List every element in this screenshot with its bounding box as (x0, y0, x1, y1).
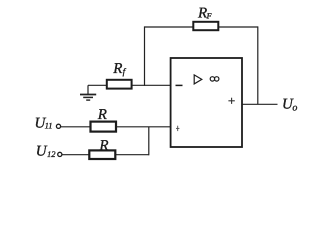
op-amp infinity symbol (210, 77, 219, 81)
svg-text:o: o (292, 102, 297, 113)
resistor RF (193, 22, 218, 30)
wire junction vertical joining row2 to row1 (148, 127, 150, 156)
op-amp triangle symbol (194, 75, 202, 84)
resistor R1 (row U11) (91, 122, 117, 132)
wire feedback right vertical (257, 26, 259, 104)
label Uo output node (282, 96, 297, 113)
wire feedback top (145, 26, 258, 28)
terminal U11 (56, 124, 60, 128)
ground (80, 85, 96, 100)
resistor Rf (107, 80, 132, 89)
wire input row 1 (U11 to plus input) (61, 126, 171, 128)
label Rf (112, 61, 126, 77)
wire input row 2 (U12 horizontal) (62, 154, 149, 156)
svg-text:F: F (206, 12, 212, 21)
op-amp U1 (171, 58, 242, 147)
svg-text:R: R (112, 61, 122, 77)
terminal U12 (58, 152, 62, 156)
op-amp non-inverting input plus sign (176, 126, 179, 131)
svg-text:U: U (36, 144, 48, 160)
wire inverting input (ground to op-amp minus) (88, 84, 171, 86)
svg-text:12: 12 (47, 149, 56, 159)
label U11 (35, 115, 53, 131)
op-amp output plus sign (228, 98, 234, 104)
wire feedback left vertical (144, 26, 146, 86)
wire output (242, 103, 278, 105)
svg-text:R: R (97, 107, 107, 123)
label RF (197, 5, 212, 21)
resistor R2 (row U12) (89, 150, 115, 159)
op-amp minus input sign (176, 84, 183, 86)
svg-text:R: R (98, 138, 108, 154)
svg-text:11: 11 (45, 120, 53, 130)
label U12 (36, 144, 56, 160)
